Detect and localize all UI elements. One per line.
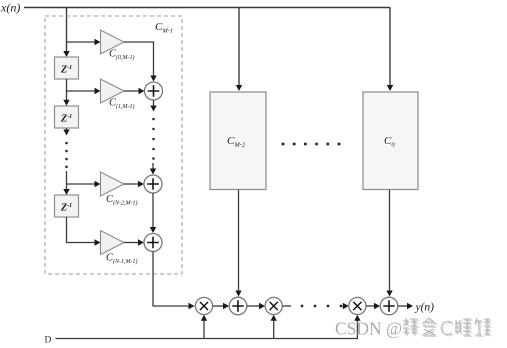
wire: D1 to D2 [66, 79, 68, 101]
wire: block C_M-2 output to adder A1 [238, 190, 240, 292]
wire: adder S3 output to multiplier M1 [153, 252, 190, 307]
svg-text:CM-1: CM-1 [155, 21, 173, 35]
wire: adder S1 down [153, 100, 155, 107]
ellipsis: between blocks [282, 143, 285, 146]
svg-text:C(1,M-1): C(1,M-1) [109, 98, 135, 111]
ellipsis: output row [301, 305, 304, 308]
svg-text:CSDN @: CSDN @ [335, 319, 402, 339]
wire: M3 to A2 [366, 305, 375, 307]
block C_0 [363, 92, 418, 190]
amp C(0,M-1) [101, 30, 125, 54]
delay z^-1 D3 [55, 195, 79, 217]
wire: resume delay column into D3 [66, 171, 68, 190]
dashed subfilter box [45, 16, 182, 274]
wire: D3 output to amp C(N-1,M-1) [67, 217, 96, 243]
wire: tap branch to amp C(N-2,M-1) [67, 183, 96, 185]
svg-text:x(n): x(n) [0, 1, 20, 15]
wire: into multiplier M3 [343, 303, 349, 309]
wire: tap branch to amp C(1,M-1) [67, 90, 96, 92]
wire: below D2 [66, 128, 68, 130]
amp C(1,M-1) [101, 79, 125, 103]
watermark author glyphs [404, 319, 491, 336]
wire: amp C(N-2,M-1) output to adder S2 [124, 183, 139, 185]
ellipsis: adder column [152, 118, 155, 121]
block C_M-2 [210, 92, 266, 190]
wire: block C_0 output to adder A2 [389, 190, 391, 292]
wire: tap branch to amp C(0,M-1) [67, 41, 96, 43]
delay z^-1 D2 [55, 106, 79, 128]
wire: drop from bus into block C_0 [389, 8, 391, 87]
amp C(N-2,M-1) [101, 172, 125, 196]
svg-text:D: D [45, 336, 52, 346]
adder S3 [144, 234, 162, 252]
wire: D feed to M2 [273, 320, 275, 339]
svg-text:C(0,M-1): C(0,M-1) [109, 49, 135, 62]
adder A1 [229, 297, 247, 315]
wire: drop from bus into block C_M-2 [238, 8, 240, 87]
wire: A2 to output y(n) [398, 305, 408, 307]
multiplier M3 [349, 297, 366, 314]
wire: top input bus [24, 7, 390, 9]
wire: M2 output stub [282, 305, 291, 307]
wire: amp C(N-1,M-1) output to adder S3 [124, 242, 139, 244]
wire: D feed to M3 [356, 320, 358, 339]
wire: A1 to M2 [247, 305, 260, 307]
adder S1 [145, 82, 163, 100]
svg-text:y(n): y(n) [415, 302, 435, 314]
wire: amp C(1,M-1) output to adder S1 [124, 90, 140, 92]
svg-text:C(N-2,M-1): C(N-2,M-1) [106, 194, 138, 207]
wire: amp C(0,M-1) output to adder S1 [124, 42, 154, 77]
wire: D bus [56, 338, 359, 340]
adder S2 [144, 175, 162, 193]
wire: drop from bus into delay line [66, 8, 68, 53]
amp C(N-1,M-1) [101, 231, 125, 255]
adder A2 [380, 297, 398, 315]
wire: resume into adder S2 [152, 163, 154, 170]
multiplier M2 [265, 297, 282, 314]
delay z^-1 D1 [55, 57, 79, 79]
wire: adder S2 to adder S3 [152, 193, 154, 228]
multiplier M1 [195, 297, 212, 314]
ellipsis: delay column [65, 142, 68, 145]
wire: D feed to M1 [203, 320, 205, 339]
svg-text:C(N-1,M-1): C(N-1,M-1) [106, 253, 138, 266]
wire: M1 to A1 [213, 305, 224, 307]
